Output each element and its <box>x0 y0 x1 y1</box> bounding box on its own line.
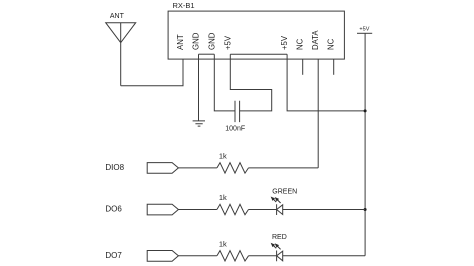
power +5V symbol <box>357 32 372 34</box>
wire R3 to LED D2 <box>249 255 277 257</box>
LED D2 emission arrows <box>272 244 281 250</box>
junction at DO6 row and rail <box>364 208 367 211</box>
svg-text:GND: GND <box>192 32 201 50</box>
wire R1 to DATA <box>249 167 319 169</box>
wire pin 5 +5V to rail <box>287 54 365 111</box>
wire +5V bridge pin4-pin5 <box>230 53 287 55</box>
wire DO7 to R3 <box>178 255 217 257</box>
resistor R2 <box>217 204 249 214</box>
wire R2 to LED D1 <box>249 209 277 211</box>
connector DO6 <box>147 204 178 215</box>
LED D1 emission arrows <box>272 197 281 203</box>
svg-text:1k: 1k <box>219 193 227 202</box>
ground <box>193 121 205 126</box>
svg-text:GREEN: GREEN <box>272 188 297 195</box>
wire DO6 to R2 <box>178 209 217 211</box>
LED D2 RED <box>277 251 283 262</box>
antenna ANT <box>106 23 136 86</box>
wire GND-GND bridge <box>199 53 215 55</box>
wire pin ANT to antenna <box>121 59 183 86</box>
svg-text:ANT: ANT <box>176 34 185 50</box>
svg-text:DO6: DO6 <box>105 205 122 214</box>
wire pin 3 GND to capacitor left plate <box>214 54 235 111</box>
junction at pin5 wire and rail <box>364 109 367 112</box>
wire pin 7 DATA down to DIO8 row <box>317 59 319 168</box>
wire LED D1 to rail <box>283 209 365 211</box>
capacitor C1 100nF <box>235 101 240 122</box>
svg-text:DO7: DO7 <box>105 251 122 260</box>
wire pin 6 NC stub <box>302 59 304 75</box>
svg-text:NC: NC <box>296 38 305 50</box>
svg-text:100nF: 100nF <box>225 125 245 132</box>
part RX-B1 body <box>168 11 344 59</box>
svg-text:+5V: +5V <box>280 35 289 50</box>
svg-text:1k: 1k <box>219 152 227 161</box>
wire pin 8 NC stub <box>333 59 335 75</box>
svg-text:RED: RED <box>272 234 287 241</box>
svg-text:+5V: +5V <box>359 27 369 33</box>
svg-text:NC: NC <box>327 38 336 50</box>
resistor R3 <box>217 251 249 261</box>
wire pin 4 +5V staircase to capacitor right plate <box>230 54 271 111</box>
svg-text:DIO8: DIO8 <box>105 163 124 172</box>
svg-text:+5V: +5V <box>223 35 232 50</box>
svg-text:GND: GND <box>207 32 216 50</box>
svg-text:1k: 1k <box>219 240 227 249</box>
LED D1 GREEN <box>277 204 283 215</box>
svg-text:ANT: ANT <box>110 13 125 20</box>
svg-text:DATA: DATA <box>311 30 320 50</box>
connector DIO8 <box>147 163 178 174</box>
wire pin 2 GND down to ground <box>198 54 200 121</box>
wire DIO8 to R1 <box>178 167 217 169</box>
svg-text:RX-B1: RX-B1 <box>173 1 195 10</box>
wire +5V rail <box>364 33 366 256</box>
wire LED D2 to rail <box>283 255 365 257</box>
connector DO7 <box>147 251 178 262</box>
resistor R1 <box>217 163 249 173</box>
